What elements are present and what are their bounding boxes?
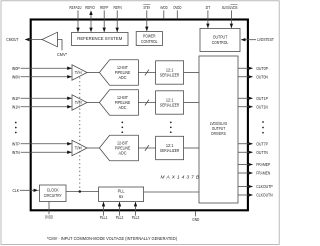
pin IN0N [12,74,72,80]
svg-text:CLKOUTP: CLKOUTP [256,184,272,190]
pin SLVS/LVDS (overline on LVDS) [222,5,238,29]
svg-text:*CMV - INPUT COMMON-MODE VOLTA: *CMV - INPUT COMMON-MODE VOLTAGE (INTERN… [47,236,177,242]
pin REFP [100,5,108,32]
T/H amplifier channel 7 [72,140,87,155]
ellipsis serializer column [170,122,172,133]
pin FRAMEP [238,162,270,168]
svg-text:DRIVERS: DRIVERS [211,131,226,137]
pin PLL2 [116,202,124,221]
ellipsis input channels [15,122,17,134]
pin IN1P [12,96,72,102]
wire T/H to ADC channel 0 [87,72,99,74]
pin REFADJ [69,5,81,32]
svg-text:IN0N: IN0N [12,74,20,80]
op-amp buffer (common-mode output) [42,32,58,47]
svg-text:T/H: T/H [75,70,82,75]
svg-text:SERIALIZER: SERIALIZER [160,73,180,79]
svg-text:CONTROL: CONTROL [141,39,158,45]
svg-text:CMOUT: CMOUT [6,37,18,43]
svg-text:REFIO: REFIO [85,5,95,11]
svg-text:IN7N: IN7N [12,150,20,156]
svg-text:CMV*: CMV* [57,52,67,58]
svg-text:IN7P: IN7P [12,141,20,147]
wire clock circuitry to PLL [66,191,99,193]
12:1 serializer channel 0 [156,61,184,84]
svg-text:OVDD: OVDD [45,215,54,221]
svg-text:IN1N: IN1N [12,104,20,110]
12-bit pipeline ADC channel 1 [99,90,138,116]
pin PLL1 [100,202,108,221]
svg-text:IN0P: IN0P [12,66,20,72]
svg-text:OUT7P: OUT7P [256,141,268,147]
svg-text:ADC: ADC [119,151,127,157]
svg-text:MAX1437B: MAX1437B [161,174,200,180]
node CMV* stub [57,40,67,59]
svg-text:CLOCK: CLOCK [47,188,60,194]
pin OUT0N [238,74,268,80]
pin IN1N [12,104,72,110]
T/H amplifier channel 1 [72,95,87,110]
wire T/H to ADC channel 1 [87,102,99,104]
svg-text:OUT1P: OUT1P [256,96,268,102]
power control block [136,32,162,46]
svg-text:ADC: ADC [119,75,127,81]
svg-text:OUTPUT: OUTPUT [213,35,228,41]
pin IN0P [12,66,72,72]
svg-text:SERIALIZER: SERIALIZER [160,148,180,154]
svg-text:FRAMEN: FRAMEN [256,171,270,177]
12-bit pipeline ADC channel 0 [99,60,138,86]
chip outline (IC boundary) [31,20,248,211]
svg-text:6x: 6x [119,194,124,200]
svg-text:T/H: T/H [75,100,82,105]
svg-text:REFP: REFP [100,5,108,11]
svg-text:AVDD: AVDD [160,5,168,11]
svg-text:IN1P: IN1P [12,96,20,102]
svg-text:SLVS/LVDS: SLVS/LVDS [222,5,238,11]
pin PLL3 [132,202,140,221]
wire serializer to output drivers channel 1 [184,102,199,104]
12:1 serializer channel 7 [156,136,184,159]
pin OUT0P [238,66,268,72]
T/H amplifier channel 0 [72,65,87,80]
svg-text:OUT1N: OUT1N [256,104,268,110]
svg-text:STBY: STBY [143,5,150,11]
bus wire ADC to serializer channel 7 (with width slash) [138,145,155,151]
svg-text:PLL3: PLL3 [132,215,140,221]
12-bit pipeline ADC channel 7 [99,135,138,161]
svg-text:REFN: REFN [114,5,123,11]
LVDS/SLVS output drivers block [199,56,238,203]
pin CLKOUTP [238,184,273,190]
ellipsis ADC column [121,122,123,133]
pin OVDD bottom (stub) [45,202,54,221]
svg-text:CONTROL: CONTROL [212,40,229,46]
svg-text:SERIALIZER: SERIALIZER [160,103,180,109]
svg-text:OUT0P: OUT0P [256,66,268,72]
pin REFN [114,5,123,32]
clock circuitry block [40,185,67,202]
svg-text:POWER: POWER [143,34,156,40]
ellipsis output pairs [262,121,264,133]
wire T/H to ADC channel 7 [87,147,99,149]
pin OUT7P [238,141,268,147]
svg-text:OVDD: OVDD [173,5,182,11]
svg-text:T/H: T/H [75,146,82,151]
svg-text:CLK: CLK [13,188,20,194]
pin REFIO (bidirectional) [85,5,95,32]
output control block [200,29,240,52]
PLL 6x block [99,187,144,202]
reference system block [72,33,129,46]
pin DT [206,5,211,28]
pin OVDD top (stub to supply rail) [173,5,182,19]
pin OUT7N [238,150,268,156]
pin IN7P [12,141,72,147]
svg-text:REFADJ: REFADJ [69,5,81,11]
pin LVDSTEST [241,37,274,43]
wire PLL to output drivers [144,191,199,193]
pin AVDD (stub to supply rail) [160,5,168,19]
svg-text:PLL: PLL [118,189,125,195]
svg-text:OUT0N: OUT0N [256,74,268,80]
svg-text:PLL1: PLL1 [100,215,108,221]
pin OUT1P [238,96,268,102]
svg-text:OUT7N: OUT7N [256,150,268,156]
pin CMOUT [6,37,42,43]
svg-text:GND: GND [192,217,200,223]
pin STBY (active low, overline) [143,5,150,32]
svg-text:CIRCUITRY: CIRCUITRY [44,193,63,199]
pin IN7N [12,150,72,156]
svg-text:ADC: ADC [119,105,127,111]
junction clock node [79,190,82,193]
pin CLK [13,188,40,194]
svg-text:PLL2: PLL2 [116,215,124,221]
dashed clock distribution wire to T/H stages [79,77,81,190]
bus wire ADC to serializer channel 1 (with width slash) [138,100,155,106]
12:1 serializer channel 1 [156,91,184,114]
pin GND [192,211,200,223]
bus wire ADC to serializer channel 0 (with width slash) [138,70,155,76]
wire serializer to output drivers channel 7 [184,147,199,149]
svg-text:REFERENCE SYSTEM: REFERENCE SYSTEM [77,36,122,42]
pin OUT1N [238,104,268,110]
svg-text:CLKOUTN: CLKOUTN [256,193,273,199]
svg-text:FRAMEP: FRAMEP [256,162,270,168]
svg-text:DT: DT [206,5,211,11]
pin CLKOUTN [238,193,273,199]
wire serializer to output drivers channel 0 [184,72,199,74]
pin FRAMEN [238,171,271,177]
svg-text:LVDSTEST: LVDSTEST [257,37,274,43]
